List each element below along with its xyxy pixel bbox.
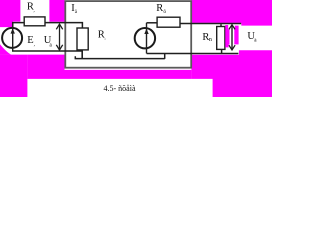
background white bbox=[0, 0, 272, 97]
wire bottom-left bbox=[12, 50, 83, 52]
resistor R3 (output resistance) bbox=[157, 17, 180, 27]
current source vertical line and arrow bbox=[146, 23, 148, 54]
wire inner bottom with left tick bbox=[75, 56, 165, 58]
background magenta strip left of output arrow bbox=[225, 25, 229, 47]
resistor R1 (Rg, series) bbox=[24, 17, 45, 26]
wire output: R3 to load node bbox=[180, 23, 241, 25]
background magenta top-right block bbox=[191, 0, 272, 26]
wire bottom right run bbox=[147, 53, 239, 55]
white zone around output arrow heads bbox=[228, 25, 235, 30]
wire from R1 into box to R2 top bbox=[45, 23, 82, 29]
voltage arrow U1 (input, double-headed) bbox=[59, 24, 61, 50]
background magenta strip right of output arrow bbox=[234, 26, 238, 45]
resistor R2 (input resistance, vertical) bbox=[77, 28, 88, 50]
wire top-left: source top to resistor R1 bbox=[13, 23, 24, 28]
resistor R4 top stub bbox=[220, 24, 222, 26]
resistor R4 (load RH, vertical) bbox=[217, 27, 225, 50]
wire jog junction bbox=[164, 54, 166, 59]
wire from current source to R3 bbox=[147, 22, 158, 24]
resistor R2 bottom stub bbox=[81, 50, 83, 59]
source E1 circle bbox=[2, 28, 22, 48]
background magenta top-left bbox=[0, 0, 20, 27]
resistor R4 bottom stub bbox=[221, 49, 223, 53]
svg-text:4.5- ñõåìà: 4.5- ñõåìà bbox=[104, 84, 136, 93]
source E1 arrow bbox=[12, 23, 14, 51]
background magenta bottom-right block bbox=[191, 50, 272, 97]
background magenta bottom-left block bbox=[0, 55, 27, 97]
svg-text:R: R bbox=[156, 3, 163, 14]
background magenta bottom band bbox=[27, 55, 191, 79]
two-port network box bbox=[65, 1, 191, 68]
svg-text:ô: ô bbox=[163, 9, 166, 15]
background magenta top-middle block bbox=[49, 0, 64, 22]
voltage arrow U2 (output, double-headed) bbox=[231, 25, 233, 50]
background magenta left of source arc bbox=[0, 44, 11, 55]
current source U2 circle bbox=[135, 28, 155, 48]
svg-text:n: n bbox=[209, 37, 212, 43]
